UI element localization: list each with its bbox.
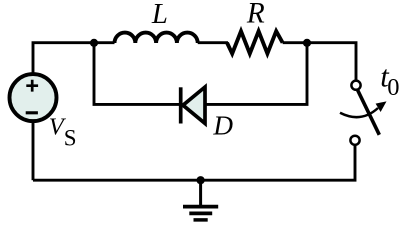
switch t0 xyxy=(340,81,387,145)
label D xyxy=(212,111,233,141)
resistor R zigzag xyxy=(227,31,283,53)
wire diode branch right: diode to node B xyxy=(205,43,307,105)
svg-text:R: R xyxy=(246,0,265,30)
wire diode branch left: node A down and right to diode xyxy=(94,43,179,105)
label VS xyxy=(49,114,77,151)
label t0 xyxy=(380,60,399,102)
label L xyxy=(151,0,168,30)
voltage source VS xyxy=(10,74,57,121)
wire from resistor to node B and top-right corner down to switch xyxy=(283,43,356,81)
svg-text:0: 0 xyxy=(387,74,399,101)
svg-text:D: D xyxy=(212,111,233,141)
node A junction dot xyxy=(90,39,98,47)
wire from switch bottom to bottom-right corner xyxy=(33,145,355,180)
inductor L (4 humps) xyxy=(115,33,198,43)
label R xyxy=(246,0,265,30)
ground xyxy=(183,180,218,220)
node B junction dot xyxy=(303,39,311,47)
wire top-left from source to node A xyxy=(33,43,115,73)
svg-text:S: S xyxy=(64,125,77,150)
wire left rail: source bottom to bottom-left corner xyxy=(32,122,35,181)
svg-text:L: L xyxy=(151,0,168,30)
node ground junction dot xyxy=(197,176,205,184)
wire between inductor and resistor xyxy=(198,41,228,44)
diode D xyxy=(181,87,205,124)
